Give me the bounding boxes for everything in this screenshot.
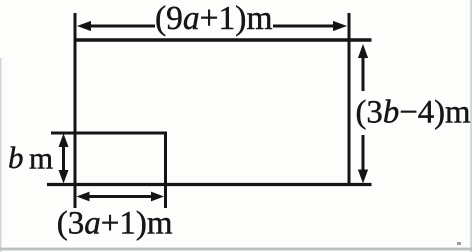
outer rectangle left edge — [74, 13, 77, 208]
svg-text:bm: bm — [8, 140, 53, 176]
outer rectangle right edge — [348, 13, 351, 186]
dimension arrow b m inner height — [59, 134, 69, 184]
svg-text:(3a+1)m: (3a+1)m — [57, 206, 173, 242]
scan edge left — [0, 58, 2, 252]
dimension arrow (3b-4)m right height — [358, 44, 368, 184]
label b m — [8, 140, 53, 176]
scan edge right — [470, 0, 472, 252]
label (3b-4)m — [356, 95, 471, 131]
dimension arrow (9a+1)m top width — [77, 21, 347, 31]
svg-text:(3b−4)m: (3b−4)m — [356, 95, 471, 131]
svg-text:(9a+1)m: (9a+1)m — [155, 0, 273, 37]
scan edge bottom — [0, 248, 472, 251]
outer rectangle bottom edge — [47, 183, 372, 186]
outer rectangle top edge — [74, 38, 372, 41]
inner rectangle right edge — [164, 132, 167, 209]
scan speck bottom right — [457, 242, 461, 245]
inner rectangle top edge — [51, 132, 166, 135]
dimension arrow (3a+1)m inner width — [77, 192, 165, 202]
label (3a+1)m — [57, 206, 173, 242]
label (9a+1)m — [155, 0, 273, 37]
